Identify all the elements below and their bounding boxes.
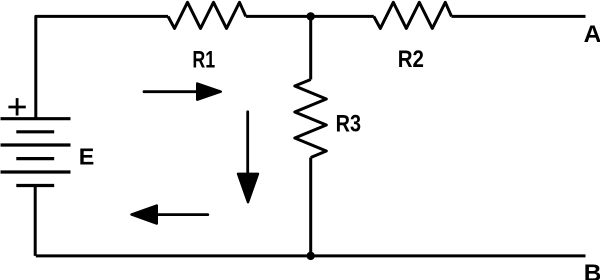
battery E plates	[1, 119, 71, 186]
wire R3 top: junction to R3	[309, 16, 312, 79]
battery plus sign	[8, 98, 25, 115]
svg-text:A: A	[584, 21, 600, 48]
wire bottom: left corner to terminal B	[36, 254, 586, 257]
wire top right: R2 to terminal A	[452, 15, 586, 18]
svg-text:R3: R3	[336, 110, 361, 137]
wire left branch: battery top to top-left corner	[36, 16, 168, 119]
current arrow right (under R1)	[144, 84, 221, 100]
svg-text:R2: R2	[398, 46, 424, 73]
current arrow left (bottom return path)	[132, 206, 208, 224]
wire R3 bottom: R3 to bottom junction	[309, 158, 312, 256]
node junction dot top	[307, 12, 315, 20]
svg-text:B: B	[584, 260, 600, 280]
svg-text:E: E	[79, 143, 95, 169]
node junction dot bottom	[307, 252, 315, 260]
wire battery bottom stem	[34, 186, 37, 256]
resistor R3	[295, 80, 327, 158]
svg-text:R1: R1	[192, 46, 215, 73]
resistor R1	[168, 2, 246, 28]
resistor R2	[374, 2, 452, 28]
wire top middle: R1 to R2	[246, 15, 374, 18]
current arrow down (through R3 branch)	[238, 112, 258, 202]
